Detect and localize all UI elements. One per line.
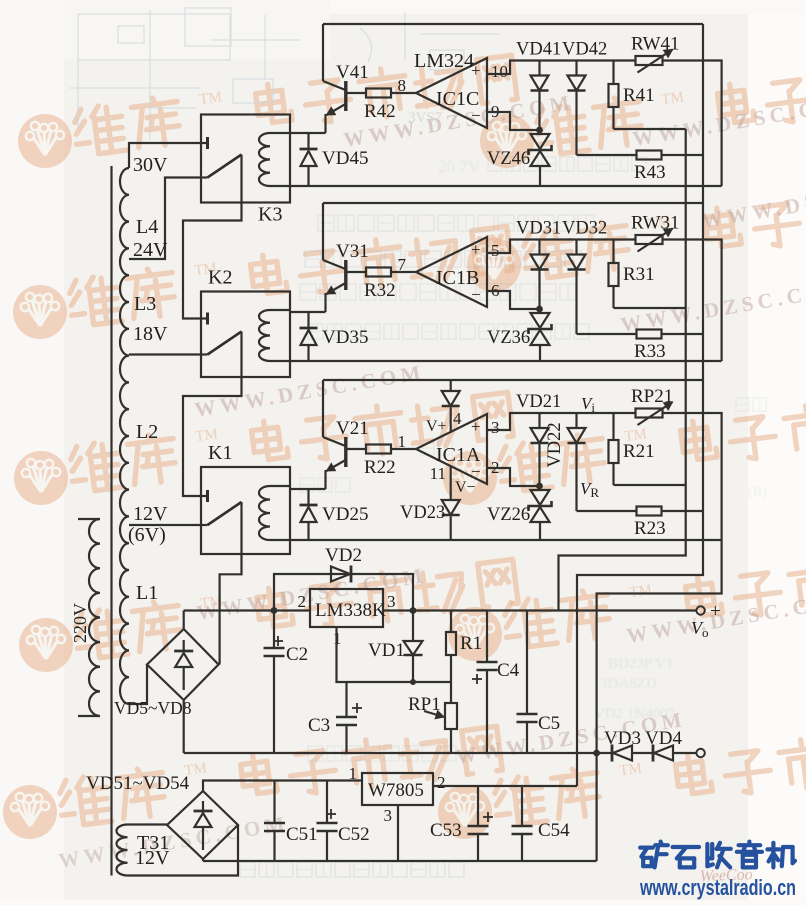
svg-text:VD23: VD23 [400, 503, 445, 523]
relay K2 [201, 292, 290, 378]
resistor R23 [577, 510, 637, 512]
diode VD2 [274, 574, 413, 611]
flyback diode VD35 [307, 312, 309, 328]
rail RP21 down to minus line [597, 540, 722, 861]
svg-text:RW41: RW41 [631, 34, 680, 55]
regulator W7805 [362, 773, 433, 805]
svg-text:VD3: VD3 [604, 728, 641, 749]
wire DC input line [184, 609, 310, 611]
W7805 gnd pin [397, 805, 399, 861]
potentiometer RP21 [636, 409, 663, 418]
terminal Vo+ [696, 606, 704, 614]
svg-text:−: − [471, 285, 481, 304]
diode VD22 [575, 413, 577, 428]
svg-text:VD22: VD22 [545, 422, 565, 467]
svg-text:R1: R1 [460, 633, 482, 654]
wire pot to right rail [663, 413, 722, 540]
resistor R32 [348, 271, 367, 273]
svg-text:RW31: RW31 [631, 213, 680, 234]
output line pin3 to Vo [383, 609, 696, 611]
resistor R1 [450, 611, 452, 633]
svg-text:C54: C54 [538, 820, 570, 841]
wire pin 6 [487, 291, 540, 309]
svg-text:VD45: VD45 [322, 148, 368, 169]
svg-text:10: 10 [491, 62, 508, 81]
svg-text:VD5~VD8: VD5~VD8 [114, 698, 192, 718]
capacitor C53 [477, 786, 479, 826]
svg-text:R21: R21 [623, 441, 655, 462]
W7805 output wire [433, 785, 577, 787]
resistor R42 [348, 92, 367, 94]
svg-text:8: 8 [398, 76, 407, 95]
svg-text:www.crystalradio.cn: www.crystalradio.cn [639, 875, 796, 900]
relay K3 pole to K2 [183, 203, 242, 319]
zener VZ26 [531, 490, 550, 505]
svg-text:C53: C53 [430, 820, 462, 841]
zener VZ46 [531, 134, 550, 149]
resistor R22 [348, 448, 367, 450]
svg-text:3: 3 [491, 418, 500, 437]
bridge to W7805 [203, 781, 362, 792]
secondary winding [120, 168, 129, 704]
potentiometer RW41 [636, 56, 663, 65]
primary winding 220V [89, 519, 100, 716]
svg-text:3VS7: 3VS7 [408, 110, 443, 126]
transistor V41 [322, 24, 324, 81]
svg-text:VD2 1N4007: VD2 1N4007 [594, 706, 676, 722]
svg-text:VZ36: VZ36 [487, 328, 530, 348]
wire emitter to coil [290, 488, 326, 490]
tap 24V link to K3 [129, 178, 201, 260]
wire emitter to coil [290, 132, 326, 134]
bleed-through ghosts [438, 157, 767, 722]
capacitor C2 [273, 611, 275, 649]
relay K3 [201, 115, 290, 203]
svg-text:R43: R43 [634, 162, 666, 183]
svg-text:TM: TM [618, 760, 642, 779]
svg-text:2: 2 [437, 773, 446, 792]
capacitor C52 [326, 781, 328, 824]
wire pot to right rail [663, 240, 722, 362]
tap 12V [129, 524, 201, 526]
flyback diode VD25 [307, 489, 309, 505]
resistor R33 [577, 333, 637, 335]
diode VD31 [538, 240, 540, 255]
relay K1 pole to bridge [220, 554, 242, 665]
rail B (supply) [577, 24, 703, 786]
svg-text:V−: V− [455, 479, 476, 496]
channel bottom wire [290, 539, 722, 541]
resistor R41 [612, 61, 614, 85]
op-amp IC1C [416, 58, 487, 128]
node junction [536, 127, 543, 134]
svg-text:C3: C3 [308, 715, 330, 736]
diode VD32 [575, 240, 577, 255]
svg-text:1: 1 [398, 432, 407, 451]
svg-text:VD51~VD54: VD51~VD54 [86, 773, 190, 794]
potentiometer RP1 [445, 703, 457, 729]
tap 30V [129, 143, 201, 168]
op-amp IC1A [416, 414, 487, 484]
svg-text:7: 7 [398, 255, 407, 274]
svg-text:VD25: VD25 [322, 504, 368, 525]
svg-text:VZ46: VZ46 [487, 149, 530, 169]
potentiometer RW31 [636, 235, 663, 244]
minus rail with VD3 VD4 [184, 752, 611, 754]
svg-text:VD1: VD1 [368, 640, 405, 661]
svg-text:R41: R41 [623, 85, 655, 106]
svg-text:K2: K2 [208, 267, 232, 289]
svg-text:C2: C2 [286, 644, 308, 665]
zener VZ36 [531, 313, 550, 328]
svg-text:L4: L4 [136, 216, 158, 238]
tap 18V [129, 353, 201, 355]
svg-text:R32: R32 [364, 280, 396, 301]
svg-text:(6V): (6V) [128, 524, 166, 546]
diode VD1 [412, 611, 414, 642]
transformer core [110, 166, 112, 876]
red watermark tiles [18, 55, 517, 168]
capacitor C51 [273, 781, 275, 824]
ground line [203, 860, 597, 862]
svg-text:R42: R42 [364, 101, 396, 122]
resistor R31 [612, 240, 614, 264]
V- pin11 diode VD23 [450, 466, 452, 500]
svg-text:VD32: VD32 [562, 219, 607, 239]
svg-text:3: 3 [384, 806, 393, 825]
transistor V21 [322, 380, 324, 437]
svg-text:−: − [471, 106, 481, 125]
svg-text:R22: R22 [364, 457, 396, 478]
svg-text:12V: 12V [135, 847, 170, 869]
svg-text:R33: R33 [634, 341, 666, 362]
svg-text:RP1: RP1 [408, 694, 441, 715]
channel bottom wire [290, 360, 722, 362]
svg-text:VZ26: VZ26 [487, 505, 530, 525]
capacitor C5 [526, 611, 528, 715]
svg-text:LM338K: LM338K [315, 600, 386, 621]
svg-text:24V: 24V [133, 239, 168, 261]
svg-text:5: 5 [491, 241, 500, 260]
relay K2 pole to K1 [183, 377, 242, 496]
channel bottom wire [290, 185, 722, 187]
bridge- drop [183, 700, 185, 753]
node junction [536, 483, 543, 490]
wire pot to right rail [663, 61, 722, 187]
svg-text:C51: C51 [286, 824, 318, 845]
rail A (R-bottoms to Vo+) [559, 129, 686, 611]
svg-text:C4: C4 [497, 660, 520, 681]
svg-text:12V: 12V [133, 503, 168, 525]
svg-text:V21: V21 [336, 418, 369, 439]
svg-text:C52: C52 [338, 824, 370, 845]
svg-text:R31: R31 [623, 264, 655, 285]
svg-text:L3: L3 [134, 293, 156, 315]
diode VD41 [538, 61, 540, 76]
svg-text:2: 2 [298, 592, 307, 611]
svg-text:V31: V31 [336, 241, 369, 262]
svg-text:VD41: VD41 [516, 40, 561, 60]
svg-text:VD2: VD2 [325, 545, 362, 566]
op-amp IC1B [416, 237, 487, 307]
capacitor C54 [521, 786, 523, 826]
svg-text:18V: 18V [133, 323, 168, 345]
diode VD21 [538, 413, 540, 428]
svg-text:+: + [471, 240, 481, 259]
svg-text:V+: V+ [426, 418, 447, 435]
channel top rail IC1A [323, 379, 703, 381]
svg-text:VD35: VD35 [322, 327, 368, 348]
relay K1 [201, 467, 290, 554]
svg-text:4: 4 [453, 409, 462, 428]
wire pin 9 [487, 112, 540, 130]
svg-text:V41: V41 [336, 62, 369, 83]
svg-text:TM: TM [198, 89, 222, 108]
regulator LM338K [310, 589, 383, 627]
svg-text:3DA8ZD: 3DA8ZD [600, 676, 657, 692]
svg-text:RP21: RP21 [631, 386, 673, 407]
diode VD42 [575, 61, 577, 76]
svg-text:+: + [710, 601, 721, 622]
wire pin 2 [487, 468, 540, 486]
svg-text:1: 1 [349, 764, 358, 783]
svg-text:BD23P V1: BD23P V1 [608, 656, 673, 672]
capacitor C4 [486, 611, 488, 663]
svg-text:+: + [471, 417, 481, 436]
svg-text:W7805: W7805 [368, 780, 424, 801]
svg-text:R23: R23 [634, 518, 666, 539]
svg-text:(B): (B) [748, 485, 767, 500]
svg-text:C5: C5 [538, 713, 560, 734]
secondary bottom to bridge [129, 665, 147, 705]
svg-text:K3: K3 [258, 204, 282, 226]
bridge+ to LM338K line [183, 611, 185, 630]
crystalradio branding [640, 842, 668, 868]
channel top rail IC1B [323, 202, 703, 204]
node junction [536, 306, 543, 313]
wire emitter to coil [290, 311, 326, 313]
svg-text:220V: 220V [70, 603, 90, 643]
svg-text:VD21: VD21 [516, 392, 561, 412]
svg-text:TM: TM [660, 89, 684, 108]
pin1 wire [337, 627, 452, 682]
svg-text:L2: L2 [136, 421, 158, 443]
wire pin 3 to divider [487, 413, 636, 430]
bridge rectifier VD5~VD8 [147, 629, 219, 700]
capacitor C3 [345, 682, 347, 717]
bridge rectifier VD51~VD54 [167, 791, 238, 859]
resistor R21 [612, 413, 614, 440]
channel top rail IC1C [323, 23, 703, 25]
svg-text:20 7V: 20 7V [438, 157, 481, 176]
svg-text:3: 3 [387, 592, 396, 611]
wire pin 5 to divider [487, 240, 636, 254]
flyback diode VD45 [307, 133, 309, 149]
resistor R43 [577, 154, 637, 156]
svg-text:TM: TM [628, 582, 652, 601]
transformer T31 [117, 825, 128, 876]
svg-text:L1: L1 [136, 582, 158, 604]
V+ pin4 diode [450, 380, 452, 391]
svg-text:VD4: VD4 [645, 728, 682, 749]
svg-text:K1: K1 [208, 442, 232, 464]
transistor V31 [322, 203, 324, 260]
svg-text:LM324: LM324 [414, 50, 474, 72]
svg-text:30V: 30V [133, 154, 168, 176]
svg-text:VD42: VD42 [562, 40, 607, 60]
svg-text:11: 11 [430, 464, 446, 483]
svg-text:VD31: VD31 [516, 219, 561, 239]
wire pin 10 to divider [487, 61, 636, 75]
